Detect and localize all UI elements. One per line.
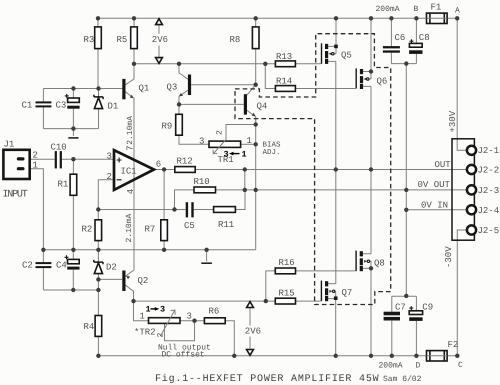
wire C1 stubs <box>42 89 44 129</box>
resistor R2 <box>95 220 102 241</box>
svg-text:R8: R8 <box>230 35 241 45</box>
node C <box>455 354 459 358</box>
wire Q5 tap lead <box>334 53 336 55</box>
svg-text:0V OUT: 0V OUT <box>418 180 451 190</box>
wire Q7 source to rail <box>335 300 337 356</box>
dashed heatsink outline <box>235 34 391 305</box>
resistor R4 <box>95 316 102 337</box>
svg-text:D: D <box>416 362 421 371</box>
resistor R16 <box>275 268 295 274</box>
wire TR2 pin2 loop <box>165 321 195 341</box>
svg-text:D2: D2 <box>106 263 117 273</box>
resistor R10 <box>194 187 216 193</box>
svg-text:C9: C9 <box>422 303 433 313</box>
junction square Q5 drain <box>334 45 338 49</box>
trimmer TR1 <box>209 141 241 147</box>
voltage indicator 2V6 top <box>158 25 160 58</box>
svg-text:DC offset: DC offset <box>162 351 205 360</box>
node R13 R14 left <box>263 62 267 66</box>
svg-text:R3: R3 <box>84 35 95 45</box>
node 0V OUT x406 <box>404 188 408 192</box>
svg-text:C10: C10 <box>51 143 67 153</box>
capacitor C6 <box>383 46 400 48</box>
wire C4 stubs <box>72 250 74 290</box>
svg-text:C4: C4 <box>56 261 67 271</box>
wire Q3 base to node <box>191 84 256 86</box>
node feedback R2 <box>96 207 100 211</box>
svg-text:C: C <box>458 361 463 370</box>
wire Q4 emitter diag <box>247 111 256 117</box>
wire R15 to Q7 gate <box>296 300 321 302</box>
svg-text:R14: R14 <box>276 77 292 87</box>
wire TR1/gnd vertical x255.7 <box>255 117 257 250</box>
wire D2 column R4 <box>97 250 99 356</box>
wire Q1 collector <box>126 64 135 85</box>
svg-text:IC1: IC1 <box>121 167 137 177</box>
wire -30V vertical to J2-5 <box>457 230 467 356</box>
wire C8 stubs <box>415 18 417 63</box>
wire Q8 tap lead <box>370 261 371 268</box>
wire R6 right corner to bottom rail <box>225 321 234 356</box>
capacitor C8 <box>409 43 422 47</box>
node TR2 pin3 <box>192 319 196 323</box>
node C3 top <box>71 86 75 90</box>
svg-text:R5: R5 <box>117 35 128 45</box>
diode D1 <box>94 95 103 99</box>
svg-text:F2: F2 <box>448 340 459 350</box>
svg-text:7: 7 <box>126 145 136 150</box>
svg-text:Q6: Q6 <box>377 77 388 87</box>
svg-text:R16: R16 <box>279 258 295 268</box>
wire TR2 pin3 to R6 <box>180 320 204 322</box>
wire Q7 drain lead <box>328 283 336 285</box>
wire Q2 emitter output line y301.1 <box>134 300 276 302</box>
node gnd R7 <box>162 248 166 252</box>
ground symbol on gnd rail <box>206 250 208 261</box>
ground symbol near C3 <box>72 129 74 136</box>
connector J2-2 pin <box>467 165 476 174</box>
wire output stage left vertical x335.8 <box>335 61 337 283</box>
svg-text:+30V: +30V <box>448 110 458 132</box>
wire Q6 drain vertical <box>363 18 371 79</box>
node R5 top <box>132 16 136 20</box>
wire TR1 pin2 loop <box>226 125 256 140</box>
capacitor C9 <box>409 311 422 315</box>
wire rail y290 <box>43 289 98 291</box>
op-amp IC1 <box>114 150 154 190</box>
wire R5 stubs <box>133 18 135 64</box>
svg-text:2: 2 <box>157 333 166 338</box>
svg-text:*TR2: *TR2 <box>134 328 156 338</box>
svg-text:ADJ.: ADJ. <box>263 149 281 157</box>
svg-text:R7: R7 <box>145 225 156 235</box>
wire 0V OUT line y189.9 <box>216 189 467 191</box>
svg-text:C6: C6 <box>395 33 406 43</box>
svg-text:J1: J1 <box>4 140 15 150</box>
svg-text:J2-2: J2-2 <box>478 166 500 176</box>
node Q8 source <box>369 266 373 270</box>
svg-text:R10: R10 <box>194 177 210 187</box>
svg-text:INPUT: INPUT <box>3 190 28 201</box>
svg-text:F1: F1 <box>431 3 442 13</box>
wire input top rail y88.5 <box>43 88 122 90</box>
node TR1 pin1 bias adj <box>254 142 258 146</box>
node gnd R2 D2 <box>96 248 100 252</box>
resistor R5 <box>131 27 138 49</box>
wire R14 left riser and to Q6 gate <box>265 64 355 89</box>
wire OUT line y169.5 <box>195 169 467 171</box>
resistor R12 <box>175 167 195 173</box>
node D2 Q2 base <box>96 277 100 281</box>
resistor R13 <box>275 61 295 67</box>
node R8 top <box>254 16 258 20</box>
wire 0V IN line y209.8 <box>406 209 467 211</box>
wire input lower rail y128.6 <box>43 128 98 130</box>
svg-text:2: 2 <box>216 130 225 135</box>
svg-text:0V IN: 0V IN <box>421 200 448 210</box>
transistor Q4 <box>244 94 247 114</box>
svg-text:Q5: Q5 <box>341 51 352 61</box>
capacitor C10 <box>55 151 57 168</box>
node Q3 emitter R9 <box>177 102 181 106</box>
node Q3 base R8 <box>254 83 258 87</box>
node gnd R1 C4 <box>71 248 75 252</box>
node R5 bottom <box>132 62 136 66</box>
svg-text:C1: C1 <box>22 101 33 111</box>
wire R16 riser and body leads <box>266 271 356 301</box>
svg-text:R15: R15 <box>279 288 295 298</box>
wire C7 stubs <box>391 296 393 356</box>
node C10 R1 <box>71 157 75 161</box>
node D / C9 bottom rail <box>414 354 418 358</box>
wire Q3 emitter node to Q4 base <box>179 103 244 105</box>
wire Q7 tap lead <box>334 291 337 296</box>
node OUT Q6 Q8 <box>369 167 373 171</box>
wire TR2 pin1 <box>134 301 149 321</box>
wire IC1 out to R12 <box>154 169 175 171</box>
capacitor C5 <box>186 202 188 217</box>
svg-text:R9: R9 <box>162 122 173 132</box>
svg-text:Sam 6/02: Sam 6/02 <box>383 375 422 384</box>
wire J1 pin1 down to gnd rail <box>30 169 44 250</box>
wire Q5 drain vertical <box>335 18 337 54</box>
resistor R7 <box>161 220 168 241</box>
capacitor C4 <box>68 259 80 263</box>
node Q3 collector <box>177 62 181 66</box>
svg-text:Q7: Q7 <box>342 288 353 298</box>
svg-text:Q8: Q8 <box>374 259 385 269</box>
node Q6 rail <box>369 16 373 20</box>
svg-text:2V6: 2V6 <box>245 327 261 337</box>
node R4 bottom rail <box>96 354 100 358</box>
resistor R11 <box>214 207 236 213</box>
connector J2-1 pin <box>467 146 476 155</box>
svg-text:2V6: 2V6 <box>152 35 168 45</box>
svg-text:1: 1 <box>33 161 38 171</box>
connector J2-3 pin <box>467 185 476 194</box>
svg-text:-30V: -30V <box>444 246 454 268</box>
svg-text:200mA: 200mA <box>376 5 400 14</box>
resistor R8 <box>252 27 259 49</box>
wire C6/C8 bottom vertical x406.3 <box>405 64 407 296</box>
node R10 R11 right <box>243 188 247 192</box>
wire C7/C9 top link <box>392 295 417 297</box>
svg-text:1: 1 <box>247 136 252 146</box>
node Q6 drain <box>369 69 373 73</box>
svg-text:Fig.1--HEXFET POWER AMPLIFIER: Fig.1--HEXFET POWER AMPLIFIER 45W <box>155 373 379 385</box>
wire D1 stubs <box>98 89 100 129</box>
node R3 top <box>96 16 100 20</box>
svg-text:C5: C5 <box>184 221 195 231</box>
wire feedback line y209.5 <box>98 209 213 211</box>
svg-text:A: A <box>455 6 460 15</box>
wire Q8 source lead <box>363 267 371 269</box>
mosfet Q5 <box>321 43 323 64</box>
node IC1 out <box>162 167 166 171</box>
wire Q5 drain lead <box>328 45 336 47</box>
wire Q8 source to rail <box>370 268 372 356</box>
wire Q6 source <box>363 86 371 169</box>
wire C6/C8 bottom link <box>391 63 416 65</box>
svg-text:C7: C7 <box>395 303 406 313</box>
svg-text:J2-1: J2-1 <box>478 146 500 156</box>
node C7 C9 link <box>404 294 408 298</box>
svg-text:Q4: Q4 <box>257 102 268 112</box>
wire Q3 emitter column to R9 <box>179 64 209 145</box>
node 0V OUT gnd riser <box>254 188 258 192</box>
svg-text:R11: R11 <box>218 220 234 230</box>
wire top +30V rail <box>98 17 457 19</box>
capacitor C2 <box>36 262 52 264</box>
svg-text:Q3: Q3 <box>167 83 178 93</box>
resistor R1 <box>70 174 77 195</box>
wire R3 stubs <box>97 18 99 88</box>
wire IC1 pin2 to feedback node <box>98 180 114 210</box>
node gnd J1 C2 <box>41 248 45 252</box>
wire bottom -30V rail <box>98 355 457 357</box>
wire C3 stubs <box>72 89 74 129</box>
wire R2 stubs <box>97 210 99 250</box>
node gnd symbol <box>204 248 208 252</box>
wire Q8 drain vertical <box>363 170 371 254</box>
wire gnd rail y249.8 <box>43 249 255 251</box>
svg-text:6: 6 <box>156 159 161 169</box>
wire R7 branch from out node <box>163 170 165 250</box>
wire Q2 emitter diag <box>126 270 135 276</box>
capacitor C3 <box>68 98 80 102</box>
svg-text:R4: R4 <box>84 322 95 332</box>
node TR1 pin2 <box>254 122 258 126</box>
svg-text:2: 2 <box>107 172 112 182</box>
wire bias rail y64 <box>134 63 275 65</box>
svg-text:C8: C8 <box>419 33 430 43</box>
wire Q1 emitter / IC1 supply vertical 2.10mA <box>126 92 135 270</box>
connector J2-5 pin <box>467 225 476 234</box>
svg-text:3: 3 <box>199 137 204 147</box>
resistor R3 <box>95 27 102 49</box>
wire riser OUT to R10/R11 node <box>244 170 246 190</box>
svg-text:J2-5: J2-5 <box>478 226 500 236</box>
junction square Q7 source <box>334 296 338 300</box>
node OUT Q5 Q7 <box>334 167 338 171</box>
resistor R15 <box>275 298 295 304</box>
svg-text:R12: R12 <box>177 157 193 167</box>
trimmer TR2 <box>149 318 181 324</box>
node R16 riser <box>264 299 268 303</box>
transistor Q2 <box>122 271 125 292</box>
node A <box>455 16 459 20</box>
svg-text:Q1: Q1 <box>139 83 150 93</box>
mosfet Q6 <box>355 68 357 88</box>
svg-text:R2: R2 <box>82 225 93 235</box>
svg-text:1: 1 <box>146 305 151 315</box>
connector J2 box <box>452 139 474 240</box>
fuse F1 <box>427 13 448 23</box>
svg-text:C2: C2 <box>22 261 33 271</box>
node OUT feedback tap <box>243 167 247 171</box>
wire J1 pin2 to C10 <box>30 158 55 160</box>
wire Q7 source lead <box>328 298 334 300</box>
connector J2-4 pin <box>467 205 476 214</box>
node C4 bottom <box>71 288 75 292</box>
node Q2 collector TR2 <box>131 299 135 303</box>
resistor R6 <box>204 318 225 324</box>
node C3 bottom <box>71 126 75 130</box>
svg-text:J2-4: J2-4 <box>478 206 500 216</box>
resistor R14 <box>275 86 295 92</box>
svg-text:2.10mA: 2.10mA <box>126 116 135 145</box>
svg-text:Q2: Q2 <box>138 276 149 286</box>
wire R11 right riser <box>235 190 245 210</box>
node Q8 source rail <box>369 354 373 358</box>
wire R1 stubs <box>72 159 74 250</box>
svg-text:2.10mA: 2.10mA <box>125 213 134 242</box>
mosfet Q7 <box>320 281 322 302</box>
node 0V IN x406 <box>404 208 408 212</box>
wire Q2 base <box>98 278 122 280</box>
wire C9 stubs <box>415 296 417 356</box>
node D1 top <box>96 86 100 90</box>
svg-text:R13: R13 <box>276 52 292 62</box>
wire TR1 pin1 <box>241 143 256 145</box>
capacitor C1 <box>36 101 52 103</box>
transistor Q3 <box>188 75 191 96</box>
svg-text:OUT: OUT <box>435 160 452 170</box>
mosfet Q8 <box>355 251 357 272</box>
fuse F2 <box>427 351 448 361</box>
svg-text:R1: R1 <box>58 180 69 190</box>
wire C2 stubs <box>42 250 44 290</box>
svg-text:C3: C3 <box>56 101 67 111</box>
wire Q5 source lead <box>328 60 336 62</box>
node C6 C8 link <box>404 61 408 65</box>
capacitor C7 <box>384 312 400 316</box>
wire R8 stubs <box>255 18 257 84</box>
diode D2 <box>94 260 103 264</box>
svg-text:3: 3 <box>187 312 192 322</box>
node B / C8 top <box>414 16 418 20</box>
node Q7 source rail <box>334 354 338 358</box>
svg-text:J2-3: J2-3 <box>478 186 500 196</box>
svg-text:200mA: 200mA <box>379 362 403 371</box>
wire R13 to Q5 gate <box>295 63 320 65</box>
svg-text:2: 2 <box>33 151 38 161</box>
node C6 top <box>389 16 393 20</box>
svg-text:1: 1 <box>242 149 247 159</box>
svg-text:4: 4 <box>126 189 136 194</box>
wire R10 left riser <box>175 190 195 210</box>
svg-text:3: 3 <box>160 305 165 315</box>
wire +30V vertical to J2-1 <box>457 18 467 150</box>
voltage indicator 2V6 bottom <box>249 307 251 349</box>
resistor R9 <box>176 114 183 135</box>
wire C10 to IC1 pin3 <box>62 158 114 160</box>
svg-text:1: 1 <box>140 312 145 322</box>
svg-text:D1: D1 <box>108 102 119 112</box>
svg-text:3: 3 <box>107 152 112 162</box>
connector J1 <box>3 150 29 179</box>
svg-text:B: B <box>414 5 419 14</box>
wire Q6 tap lead <box>369 78 371 80</box>
transistor Q1 <box>122 79 125 99</box>
node rail290 column <box>96 288 100 292</box>
wire C6 stubs <box>390 18 392 63</box>
node Q5 rail <box>334 16 338 20</box>
wire Q4 collector diag <box>247 85 256 95</box>
svg-text:R6: R6 <box>209 307 220 317</box>
wire Q2 collector <box>126 285 134 301</box>
svg-text:3: 3 <box>224 149 229 159</box>
node feedback C5 R10 <box>172 207 176 211</box>
node R6 corner rail <box>232 354 236 358</box>
node C7 bottom rail <box>390 354 394 358</box>
